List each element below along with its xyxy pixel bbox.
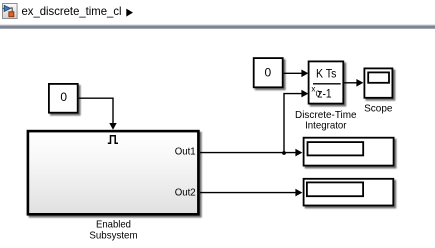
wire C2 to integrator input [284, 70, 309, 78]
Enabled Subsystem block [28, 131, 199, 214]
svg-text:Out2: Out2 [175, 188, 196, 199]
svg-text:0: 0 [265, 65, 272, 79]
wire Out2 to Display2 [200, 189, 302, 197]
svg-text:Out1: Out1 [175, 146, 196, 157]
svg-text:0: 0 [316, 90, 321, 99]
wire C1 to Enabled Subsystem [79, 98, 117, 130]
label Enabled Subsystem [89, 219, 137, 242]
svg-text:Integrator: Integrator [305, 119, 347, 131]
branch wire to integrator x0 port [284, 90, 308, 153]
wire Out1 to Display1 [200, 149, 302, 157]
toolbar model icon [3, 4, 18, 19]
label Discrete-Time Integrator [295, 109, 357, 132]
constant block C2 value 0 [254, 58, 283, 87]
breadcrumb arrow [126, 9, 133, 17]
Discrete-Time Integrator block [309, 61, 344, 103]
svg-text:Scope: Scope [364, 103, 393, 115]
toolbar separator [0, 24, 435, 29]
wire integrator to Scope [344, 79, 363, 87]
label Scope [364, 103, 393, 115]
Display2 block [304, 179, 394, 206]
Scope block [364, 68, 392, 97]
breadcrumb text ex_discrete_time_cl [22, 4, 122, 18]
Display1 block [304, 138, 394, 166]
svg-text:Subsystem: Subsystem [89, 230, 137, 242]
junction dot [282, 151, 286, 155]
constant block C1 value 0 [49, 84, 78, 113]
svg-text:ex_discrete_time_cl: ex_discrete_time_cl [22, 4, 122, 18]
svg-text:K Ts: K Ts [316, 67, 336, 81]
enable pulse icon [108, 136, 118, 144]
svg-text:0: 0 [60, 90, 67, 104]
